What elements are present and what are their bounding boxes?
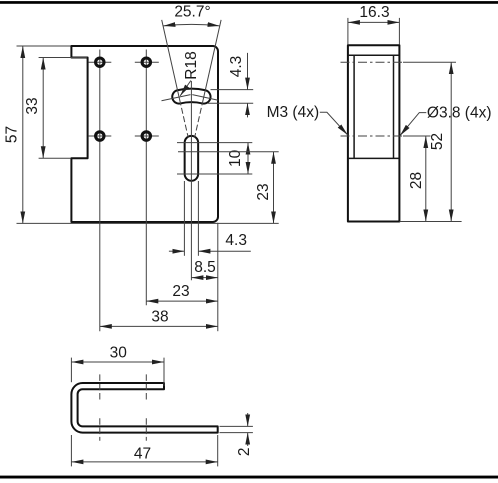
svg-text:4.3: 4.3 xyxy=(228,56,245,78)
svg-text:23: 23 xyxy=(172,283,189,300)
svg-text:2: 2 xyxy=(236,447,253,456)
svg-text:30: 30 xyxy=(110,344,128,361)
svg-text:Ø3.8 (4x): Ø3.8 (4x) xyxy=(427,104,492,121)
svg-text:R18: R18 xyxy=(183,51,200,79)
svg-text:23: 23 xyxy=(255,183,272,200)
svg-text:38: 38 xyxy=(151,308,168,325)
svg-text:47: 47 xyxy=(134,446,151,463)
svg-text:8.5: 8.5 xyxy=(194,259,216,276)
svg-text:M3 (4x): M3 (4x) xyxy=(267,104,320,121)
svg-text:25.7°: 25.7° xyxy=(174,4,210,21)
svg-text:33: 33 xyxy=(24,97,41,114)
svg-text:16.3: 16.3 xyxy=(359,4,389,21)
svg-text:28: 28 xyxy=(408,172,425,189)
svg-text:57: 57 xyxy=(3,126,20,143)
svg-text:52: 52 xyxy=(429,133,446,150)
svg-text:4.3: 4.3 xyxy=(225,232,247,249)
